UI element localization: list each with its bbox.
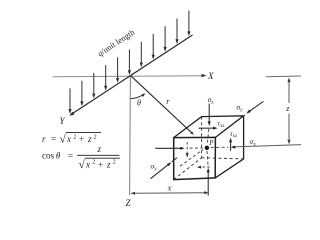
svg-text:+: + — [98, 159, 103, 169]
sigma_y dashed action line inside cube — [180, 149, 203, 166]
svg-text:x: x — [66, 134, 71, 144]
svg-text:=: = — [51, 134, 56, 144]
load arrow 3 — [92, 73, 95, 99]
load arrow 6 — [128, 50, 131, 76]
tau_xz arrow on top face (right-pointing) — [199, 127, 218, 130]
svg-text:+: + — [79, 134, 84, 144]
svg-text:√: √ — [79, 158, 86, 171]
svg-text:z: z — [106, 159, 111, 169]
Z axis — [126, 76, 132, 208]
load arrow 5 — [116, 57, 119, 83]
svg-text:z: z — [87, 134, 92, 144]
svg-text:X: X — [207, 71, 214, 81]
sigma_x dashed action line P to left face — [190, 147, 203, 149]
svg-text:r: r — [42, 134, 46, 144]
sigma_x dashed action line P to right face — [211, 146, 229, 148]
load arrow 10 — [175, 19, 178, 45]
equation r = sqrt(x^2+z^2) — [42, 133, 101, 146]
line r to point P — [131, 76, 194, 135]
svg-text:2: 2 — [113, 160, 116, 166]
svg-text:2: 2 — [92, 160, 95, 166]
load arrow 7 — [140, 42, 143, 68]
svg-text:P: P — [208, 139, 214, 147]
sigma_y arrow (front, lower-left) — [151, 158, 178, 179]
equation cos(theta) = z / sqrt(x^2+z^2) — [42, 144, 120, 171]
stress element cube solid edges — [174, 116, 244, 180]
tau arrow on bottom face (dashed, left-pointing) — [197, 166, 210, 169]
svg-text:cos θ: cos θ — [42, 151, 61, 161]
tau arrow on left face (dashed, down-pointing) — [186, 142, 189, 157]
svg-text:x: x — [167, 184, 172, 193]
load arrow 11 — [187, 11, 190, 37]
sigma_y arrow (back, upper-right) — [246, 101, 263, 113]
load arrow 2 — [80, 81, 83, 107]
X axis — [53, 71, 215, 81]
svg-text:√: √ — [60, 133, 67, 146]
sigma_z arrow (top) — [208, 104, 211, 127]
svg-text:θ: θ — [137, 98, 141, 107]
angle theta arc — [131, 93, 146, 99]
z dimension vertical line — [287, 78, 290, 145]
cube hidden edges (dashed) — [174, 117, 244, 180]
point P — [205, 146, 209, 150]
sigma_z arrow (bottom, pointing up) — [207, 168, 210, 196]
Y axis — [60, 35, 193, 126]
z dimension top tick — [266, 75, 301, 78]
load arrow 4 — [104, 65, 107, 91]
tau_xz arrow on right face (up-pointing) — [229, 138, 232, 151]
svg-text:=: = — [68, 151, 73, 161]
svg-text:2: 2 — [73, 134, 76, 140]
svg-text:x: x — [85, 159, 90, 169]
load arrow 8 — [152, 34, 155, 60]
svg-text:2: 2 — [94, 134, 97, 140]
svg-text:z: z — [97, 144, 102, 154]
sigma_x arrow (left, pointing right) — [155, 147, 185, 150]
sigma_z dashed action line through P — [207, 129, 209, 165]
x dimension line — [130, 191, 208, 195]
sigma_x arrow (right) + z-dim extension — [231, 145, 301, 149]
load arrow 1 — [68, 88, 71, 114]
load arrow 9 — [164, 26, 167, 52]
